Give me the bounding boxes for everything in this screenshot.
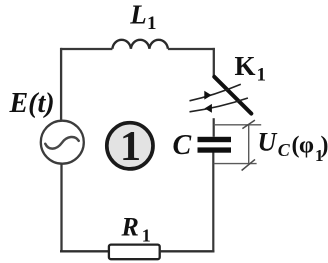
svg-text:R: R	[121, 212, 139, 241]
svg-text:φ: φ	[299, 133, 314, 159]
wire top-right horizontal segment	[168, 48, 215, 50]
dimension tick top	[242, 120, 255, 129]
svg-text:E(t): E(t)	[9, 88, 55, 119]
switch arrow lower head	[205, 104, 212, 113]
inductor L1	[112, 40, 167, 49]
dimension bracket vertical line	[248, 125, 250, 164]
sine wave inside source	[45, 137, 78, 149]
wire bottom-left horizontal	[60, 250, 110, 252]
AC source E(t)	[41, 121, 84, 164]
wire bottom-right horizontal	[160, 250, 215, 252]
wire left vertical (source to bottom corner)	[60, 164, 62, 253]
svg-text:1: 1	[257, 65, 267, 86]
switch arrow upper arc	[190, 84, 241, 101]
svg-text:1: 1	[120, 123, 141, 170]
svg-text:): )	[321, 133, 328, 159]
capacitor C plates	[198, 137, 232, 153]
svg-text:1: 1	[142, 226, 151, 246]
wire left vertical (top corner to source)	[60, 48, 62, 120]
svg-text:L: L	[129, 0, 147, 30]
dimension bracket top line	[214, 124, 262, 126]
wire capacitor to switch	[213, 118, 215, 137]
svg-text:C: C	[278, 140, 291, 160]
wire top-right vertical (corner to switch pivot)	[213, 48, 215, 78]
svg-text:1: 1	[147, 13, 157, 34]
node 1 circle	[107, 123, 153, 169]
dimension tick bottom	[242, 159, 255, 170]
svg-text:K: K	[235, 51, 256, 81]
resistor R1	[109, 245, 160, 260]
switch arrow lower arc	[190, 98, 248, 112]
switch K1 blade	[214, 77, 251, 114]
dimension bracket bottom line	[214, 163, 257, 165]
wire top-left horizontal segment	[61, 48, 113, 50]
switch arrow upper head	[204, 91, 211, 100]
wire right vertical (bottom corner to capacitor)	[212, 152, 214, 252]
svg-text:C: C	[173, 130, 192, 161]
svg-text:U: U	[258, 127, 278, 156]
